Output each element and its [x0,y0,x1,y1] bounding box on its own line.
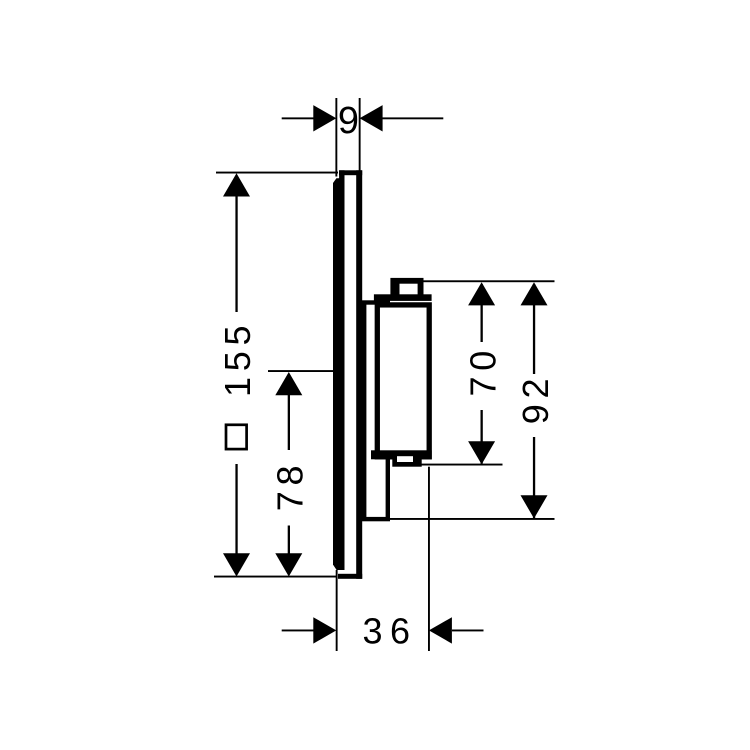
valve body [377,305,429,457]
dimension 155: line lower segment [223,464,250,577]
valve body bottom band [371,450,432,459]
dimension 78: line lower segment [275,526,302,577]
dimension 9: right extension line [359,98,361,171]
dimension 92: bottom leader line [390,518,555,520]
dimension 92: line upper segment [521,282,548,374]
dimension 92: line lower segment [521,437,548,519]
dimension 92: label [515,373,556,424]
dimension 36: right extension line [428,467,430,651]
valve body cap flange [374,294,432,301]
wall plate bottom edge [338,574,362,579]
dimension 70: label [462,345,503,396]
svg-text:36: 36 [362,611,417,652]
svg-text:78: 78 [270,460,311,511]
dimension 9: label [338,100,359,142]
dimension 155: line upper segment [223,173,250,312]
dimension 78: label [270,460,311,511]
dimension 70: line upper segment [468,282,495,342]
wall plate right edge [356,170,362,579]
svg-text:70: 70 [462,345,503,396]
dimension 155: label [217,320,258,397]
dimension 9: left arrow [282,105,337,131]
dimension 36: left arrow [282,617,337,643]
bottom stem [392,455,421,467]
dimension 155/78: bottom baseline [214,576,337,578]
dimension 155: top extension line [216,172,338,174]
dimension 9: left extension line [335,98,337,177]
wall plate back bar [333,178,345,570]
dimension 36: right arrow [429,617,484,643]
dimension 78: line upper segment [275,372,302,450]
dimension 9: right arrow [360,105,444,131]
wall plate top-left notch [339,170,344,178]
dimension 36: left extension line [336,570,338,651]
svg-text:92: 92 [515,373,556,424]
dimension 155: square symbol [226,425,247,449]
svg-text:9: 9 [338,100,359,142]
dimension 70: line lower segment [468,410,495,464]
cartridge stem knob [390,278,423,299]
dimension 70/92: top leader line [424,280,555,282]
in-wall housing [364,303,388,520]
dimension 78: top extension line [268,370,338,372]
dimension 70: bottom leader line [420,464,503,466]
dimension 36: label [362,611,417,652]
wall plate top edge [339,170,362,175]
svg-text:155: 155 [217,320,258,397]
